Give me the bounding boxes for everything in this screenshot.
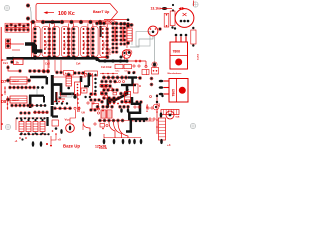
pad grid center-right: [89, 92, 100, 111]
wire red misc: [1, 55, 146, 140]
label Cx1: [3, 61, 8, 65]
svg-text:7805: 7805: [172, 89, 176, 97]
pad row y73.5: [100, 72, 135, 74]
pad row y107: [96, 105, 130, 108]
wire grey relay: [130, 36, 153, 47]
red detail sprinkles CR: [100, 81, 125, 112]
wire array bottom bus: [32, 57, 108, 59]
capacitor C16: [159, 112, 166, 144]
pad rows BL top: [19, 111, 48, 115]
wire red left D7: [4, 86, 6, 95]
svg-text:D7: D7: [1, 79, 7, 84]
svg-text:100k: 100k: [63, 42, 67, 48]
wire red L: [6, 65, 21, 73]
connector J3 ovals: [103, 138, 143, 145]
via pair: [128, 65, 141, 74]
fiducial hole bottom-right: [190, 123, 195, 128]
resistor R below P6: [152, 68, 159, 75]
red pad row center: [54, 101, 68, 105]
pad P11: [120, 56, 123, 59]
capacitor C6: [124, 65, 132, 73]
svg-text:100k: 100k: [101, 42, 105, 48]
capacitor C9: [161, 110, 179, 115]
label outline 100Kc callout: [36, 4, 118, 21]
svg-text:U9: U9: [82, 111, 86, 115]
label out2: [176, 116, 180, 119]
wire grey regulator: [154, 36, 156, 63]
label Cx3: [45, 62, 50, 66]
capacitor C7: [142, 70, 149, 75]
via Vcc: [66, 124, 75, 133]
capacitor C10: [66, 73, 72, 89]
red bits BC: [100, 124, 108, 130]
pad row CR mid: [102, 96, 120, 99]
wire black vert BC: [126, 120, 131, 132]
wire grey center: [58, 93, 72, 97]
pad row y93: [100, 92, 126, 95]
pad P1: [26, 4, 30, 8]
svg-text:3x2k2: 3x2k2: [198, 53, 200, 60]
svg-text:13.1kc: 13.1kc: [151, 7, 161, 11]
wire black zigzag: [25, 44, 43, 51]
svg-text:+4: +4: [167, 143, 171, 147]
svg-text:17k33: 17k33: [43, 40, 47, 48]
wire red stub: [11, 44, 25, 50]
svg-text:out: out: [158, 103, 161, 107]
wire black vbar: [99, 26, 101, 37]
transistor Q2: [148, 26, 158, 36]
node row under hexagon: [95, 19, 133, 27]
wire black snake CR: [106, 79, 136, 109]
wire black over D7: [30, 77, 47, 85]
wire out column: [156, 94, 164, 134]
wire red nest: [109, 122, 128, 138]
pads col x95.5: [94, 74, 96, 92]
fiducial hole bottom-left: [5, 124, 10, 129]
transistor Q4 outline: [122, 50, 131, 59]
label C100u vertical: [146, 96, 152, 113]
label 125x98: [95, 144, 106, 148]
pad row center y108: [53, 102, 94, 110]
pads on red y121: [132, 120, 154, 122]
label Baze Up: [63, 144, 80, 149]
wire red BM: [50, 136, 52, 147]
svg-text:1N4007: 1N4007: [12, 99, 20, 102]
svg-text:Cx1: Cx1: [3, 61, 8, 65]
resistor R-bm: [52, 120, 59, 135]
wire red left D8: [7, 96, 9, 110]
label out: [156, 103, 161, 128]
label plate size: [99, 148, 108, 150]
resistor R-left outline: [6, 39, 11, 48]
pad oval BM3: [89, 123, 96, 137]
relay K1 outline grey: [136, 32, 150, 47]
pad row CR top: [102, 76, 142, 80]
svg-text:Baze Up: Baze Up: [63, 144, 80, 149]
svg-text:Cx3: Cx3: [45, 62, 50, 66]
label Cx4b: [76, 62, 81, 65]
svg-text:Microbalance: Microbalance: [168, 73, 183, 75]
via V4: [166, 111, 174, 119]
pad P7 oval: [160, 7, 172, 10]
pad P4: [6, 44, 10, 48]
wire black RN1foot: [35, 45, 37, 54]
resistor R-re: [191, 27, 196, 47]
svg-text:Cx4 10Hz: Cx4 10Hz: [101, 66, 112, 69]
pad row bottom-center: [98, 119, 133, 122]
pad row y90: [102, 88, 118, 91]
svg-text:Cx4: Cx4: [76, 62, 81, 65]
svg-text:1N4007: 1N4007: [12, 80, 20, 83]
resistor marks right: [134, 84, 143, 104]
diode D7: [1, 77, 31, 84]
via ring B: [126, 50, 132, 56]
wire black center: [52, 75, 76, 105]
label BazeT Up: [93, 10, 110, 14]
via V2: [153, 104, 159, 110]
capacitor bank C12-C15: [19, 119, 45, 135]
label C4: [114, 81, 119, 84]
pads CR ovals: [120, 106, 140, 113]
wire red BL: [16, 117, 46, 130]
wire grey D7: [37, 88, 43, 95]
resistor network RN1: [33, 24, 51, 59]
label +5: [58, 138, 62, 142]
wire black stub D8: [29, 95, 44, 108]
resistor box center: [81, 88, 87, 93]
label U9: [82, 111, 86, 115]
capacitor C18: [107, 110, 112, 118]
label 100k vertical RN: [108, 48, 112, 55]
resistor network RN5: [111, 26, 118, 53]
svg-text:Vcc: Vcc: [65, 118, 71, 122]
label right edge vertical: [198, 53, 200, 60]
wire array left vertical: [31, 22, 33, 58]
pad row y81: [100, 80, 116, 83]
wire red top-right edge: [193, 1, 195, 7]
resistor network RN4: [91, 24, 109, 59]
pads left of U2: [150, 77, 153, 86]
wire black BL vert: [46, 117, 48, 126]
svg-text:1k: 1k: [16, 61, 20, 65]
parts row y72: [42, 60, 97, 77]
svg-text:7806: 7806: [173, 50, 181, 54]
red pads right of bus: [128, 60, 147, 68]
capacitor C17: [97, 108, 106, 118]
label 100 Kc: [58, 11, 75, 17]
wire red center: [57, 92, 67, 99]
pad row under D7: [8, 86, 43, 89]
svg-text:125x98: 125x98: [95, 144, 106, 148]
resistor R-tr1: [164, 14, 169, 28]
capacitor C11: [125, 89, 131, 103]
pad oval BM: [60, 129, 62, 134]
pad row y71: [28, 69, 49, 72]
label +4: [167, 143, 171, 147]
svg-text:C 100u: C 100u: [146, 104, 149, 112]
pad P9: [158, 27, 161, 30]
wire red vert x127: [126, 25, 128, 49]
resistor R-tr2: [170, 11, 175, 29]
svg-text:+5: +5: [58, 138, 62, 142]
pad oval BM2: [82, 117, 90, 131]
voltage regulator U2 7805: [159, 79, 188, 103]
fiducial hole top-right: [193, 2, 198, 7]
arrow left: [44, 11, 55, 14]
resistor R 1k: [14, 59, 24, 65]
svg-text:BazeT Up: BazeT Up: [93, 10, 110, 14]
wire black bar C19: [84, 73, 90, 87]
pad P5: [10, 60, 13, 63]
pad row y86: [100, 84, 111, 87]
label vertical 100k: [77, 92, 81, 112]
capacitor C8: [126, 24, 132, 45]
label Vcc: [65, 118, 71, 122]
pad row BL mid: [19, 133, 50, 135]
pads top center: [53, 73, 91, 77]
board edge left: [0, 27, 2, 130]
pad row under D8: [10, 104, 46, 107]
pad P10: [174, 27, 176, 29]
connector J1 pad cluster: [5, 23, 30, 32]
wire black snake BC: [129, 97, 155, 121]
resistor network RN2: [52, 24, 70, 59]
red bits BL: [15, 137, 27, 143]
transistor Q3: [175, 7, 194, 27]
wire top bus with pads: [30, 20, 109, 24]
diode D8: [1, 96, 27, 104]
wire black center2: [56, 92, 61, 102]
wire grey x132: [131, 30, 133, 45]
pads center bottom: [84, 94, 96, 98]
resistor network RN3: [72, 24, 90, 59]
voltage regulator U1 7806: [170, 34, 188, 69]
via ring A: [122, 51, 126, 55]
pad row y102: [100, 100, 131, 103]
pad P2: [26, 17, 30, 21]
wire ground bus: [7, 57, 129, 63]
pad P3: [6, 39, 10, 43]
wire black stub2: [80, 76, 83, 82]
label microbalance: [168, 73, 183, 75]
svg-text:out: out: [176, 116, 180, 119]
wire black corner BM: [52, 106, 58, 117]
svg-text:100 Kc: 100 Kc: [58, 11, 75, 17]
wire red vert x92: [92, 73, 94, 95]
capacitor C5: [115, 65, 123, 73]
connector ovals BL: [32, 141, 48, 147]
via V3: [104, 87, 106, 89]
fiducial hole top-left: [4, 5, 9, 10]
pad P6 oval: [152, 62, 157, 67]
wire grey from P1 to array: [30, 7, 31, 25]
svg-text:100k: 100k: [82, 42, 86, 48]
resistor network RN6: [119, 26, 126, 45]
pad P8: [172, 4, 174, 12]
connector J2: [75, 82, 81, 95]
label Cx4 10Hz: [101, 66, 112, 69]
label 13.1kc: [151, 7, 161, 11]
